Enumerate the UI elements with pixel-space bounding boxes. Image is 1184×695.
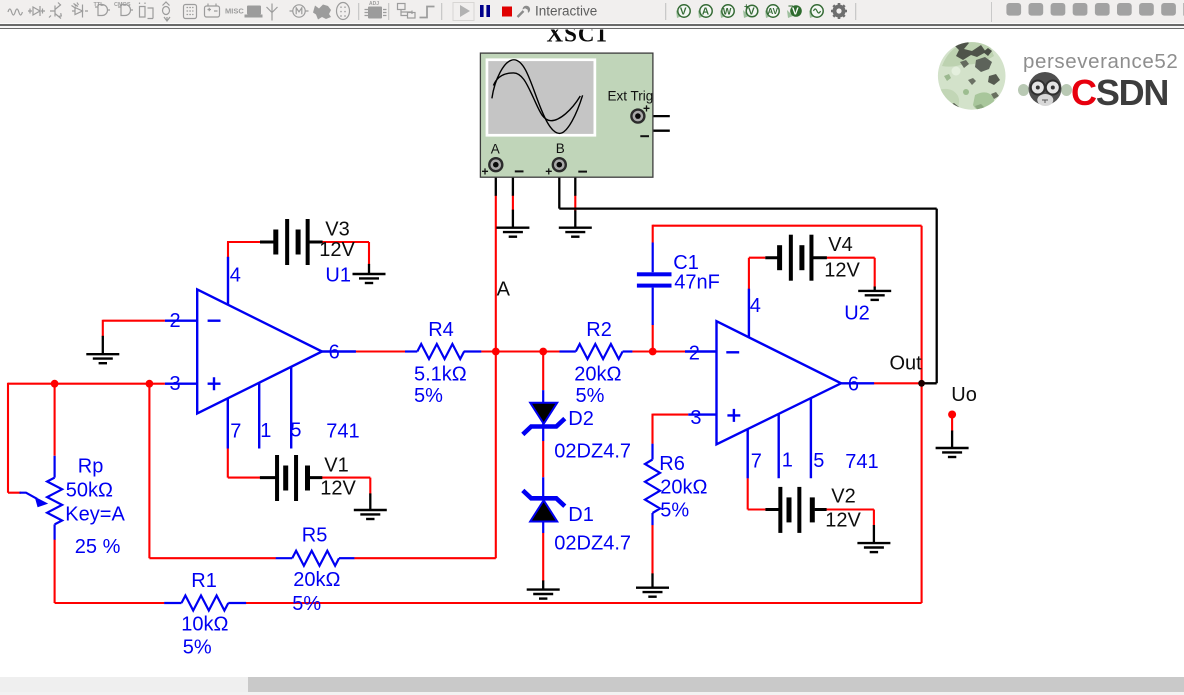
svg-text:Uo: Uo	[951, 384, 977, 406]
zener diode D2	[523, 390, 565, 441]
potentiometer Rp wiper arrowhead	[35, 497, 49, 508]
svg-text:4: 4	[230, 265, 241, 287]
instrument label XSC1	[547, 22, 609, 47]
svg-text:R1: R1	[191, 570, 217, 592]
svg-text:V1: V1	[324, 455, 348, 477]
play	[453, 3, 474, 21]
svg-text:6: 6	[329, 342, 340, 364]
svg-text:20kΩ: 20kΩ	[574, 363, 621, 385]
wire scope B+ feedback to Out	[559, 171, 936, 383]
wire right loop vertical	[921, 226, 923, 603]
wire bottom rail left of R1	[55, 602, 165, 604]
ground stems black	[103, 264, 952, 590]
svg-text:20kΩ: 20kΩ	[293, 569, 340, 591]
junction node dots	[51, 380, 59, 388]
svg-text:741: 741	[326, 421, 359, 443]
svg-text:D1: D1	[568, 504, 594, 526]
wire scope A- to ground	[502, 165, 513, 228]
green probe icons	[676, 1, 847, 19]
resistor R5	[276, 551, 355, 566]
svg-text:10kΩ: 10kΩ	[181, 614, 228, 636]
svg-text:A: A	[497, 279, 511, 301]
wire Uo stem	[951, 416, 953, 431]
battery V1	[260, 455, 322, 501]
wire top loop horizontal	[653, 225, 922, 227]
ground at scope A-	[496, 228, 529, 237]
wire ext trig minus	[638, 121, 670, 131]
ground at V3	[353, 274, 386, 283]
wire V3 to ground	[322, 242, 369, 265]
svg-text:5: 5	[813, 450, 824, 472]
svg-text:47nF: 47nF	[674, 272, 720, 294]
svg-text:12V: 12V	[320, 478, 356, 500]
svg-text:5%: 5%	[183, 637, 212, 659]
svg-text:4: 4	[750, 295, 761, 317]
svg-text:02DZ4.7: 02DZ4.7	[554, 533, 631, 555]
svg-text:20kΩ: 20kΩ	[660, 477, 707, 499]
svg-text:+: +	[482, 164, 489, 178]
wire U2 pin3 to R6	[653, 414, 689, 444]
wire U2 pin6 to Out	[874, 382, 922, 384]
svg-text:12V: 12V	[825, 510, 861, 532]
wire U2 pin4 to V4	[749, 258, 765, 289]
wire U1 pin7 to V1	[228, 448, 260, 477]
wrench	[518, 11, 524, 17]
scope terminal A	[489, 158, 502, 171]
wire diode branch top	[542, 352, 544, 391]
svg-text:B: B	[556, 141, 565, 156]
svg-text:V2: V2	[831, 486, 855, 508]
svg-text:U2: U2	[844, 303, 870, 325]
wire node A up to scope A+	[495, 195, 497, 352]
node Uo dot	[948, 411, 956, 419]
pause	[480, 5, 484, 17]
wire node to R5 left	[149, 384, 276, 559]
bottom scrollbar thumb	[248, 677, 1184, 692]
wire V1 to ground	[322, 478, 370, 495]
wire R6 to ground	[651, 525, 653, 574]
wire U2 pin7 to V2	[748, 478, 766, 509]
ground at Uo	[936, 448, 969, 457]
blue component labels	[65, 252, 878, 659]
svg-text:U1: U1	[325, 264, 351, 286]
ground at diodes	[527, 590, 560, 599]
svg-text:XSC1: XSC1	[547, 22, 609, 47]
svg-text:12V: 12V	[319, 239, 355, 261]
svg-text:R5: R5	[302, 525, 328, 547]
svg-text:02DZ4.7: 02DZ4.7	[554, 441, 631, 463]
U2 pin stubs	[685, 350, 717, 352]
svg-text:25 %: 25 %	[75, 536, 121, 558]
wire scope A- red segment	[512, 195, 514, 210]
svg-text:R2: R2	[586, 319, 612, 341]
resistor R6	[645, 444, 660, 525]
wire Rp bottom to bottom rail	[54, 539, 56, 603]
resistor R4	[405, 344, 481, 359]
wire U1 pin6 to R4	[356, 350, 406, 352]
wire: red net segments	[8, 195, 952, 603]
wire scope B- red segment	[574, 195, 576, 211]
svg-text:perseverance52: perseverance52	[1023, 50, 1178, 73]
op-amp U1	[165, 257, 356, 449]
wire V2 to ground	[826, 510, 874, 526]
svg-text:741: 741	[845, 451, 878, 473]
wire: black scope/feedback nets	[496, 116, 937, 383]
wire scope B- to ground	[565, 165, 575, 228]
ground at V4	[858, 291, 891, 300]
scope waveform trace 1	[492, 60, 583, 134]
bottom scrollbar track	[0, 677, 1184, 692]
wire bottom rail right of R1	[246, 602, 922, 604]
svg-text:5%: 5%	[292, 593, 321, 615]
wire left loop to wiper	[8, 383, 21, 493]
toolbar icons svg	[0, 0, 1184, 25]
ground at V2	[857, 543, 890, 552]
scope waveform trace 2	[493, 73, 580, 121]
battery V4	[765, 235, 827, 281]
svg-text:+: +	[643, 101, 650, 115]
wire R4 to R2	[481, 350, 560, 352]
wire node to Rp top	[54, 384, 56, 456]
ground at R6	[636, 588, 669, 597]
svg-text:V4: V4	[828, 234, 852, 256]
svg-text:5%: 5%	[414, 385, 443, 407]
black value labels	[319, 219, 977, 532]
watermark avatar	[936, 39, 1006, 112]
wire D1 to ground	[542, 533, 544, 581]
scope terminal Ext Trig	[631, 110, 644, 123]
potentiometer Rp	[20, 456, 63, 540]
resistor R2	[560, 344, 633, 359]
oscilloscope XSC1 body	[480, 53, 653, 179]
wire U1 pin3 horizontal	[8, 383, 165, 385]
svg-text:+: +	[545, 165, 552, 179]
wire V4 to ground	[827, 258, 875, 288]
svg-text:Key=A: Key=A	[65, 504, 125, 526]
gray docked squares	[1006, 3, 1184, 16]
node Out junction dot	[918, 380, 925, 387]
ground at U1 pin2	[86, 354, 119, 363]
op-amp U2	[685, 289, 874, 479]
csdn monkey mascot	[1018, 72, 1072, 106]
separators	[359, 2, 992, 22]
ground at scope B-	[559, 228, 592, 237]
U1 pin stubs	[165, 320, 197, 322]
svg-text:12V: 12V	[824, 260, 860, 282]
resistor R1	[164, 596, 246, 611]
wire scope A+ black stub	[495, 171, 497, 196]
svg-text:5: 5	[290, 420, 301, 442]
stop	[502, 7, 512, 17]
svg-text:7: 7	[230, 421, 241, 443]
svg-text:2: 2	[689, 343, 700, 365]
battery V3	[260, 219, 323, 265]
wire R5 right to node A	[354, 352, 496, 559]
svg-text:3: 3	[170, 373, 181, 395]
svg-text:5.1kΩ: 5.1kΩ	[414, 363, 467, 385]
svg-text:7: 7	[751, 451, 762, 473]
svg-text:5%: 5%	[660, 500, 689, 522]
wire R2 to U2 pin2	[632, 350, 685, 352]
svg-text:CSDN: CSDN	[1071, 72, 1168, 113]
battery V2	[765, 487, 826, 533]
ground at V1	[354, 510, 387, 519]
svg-text:R6: R6	[659, 453, 685, 475]
svg-text:Rp: Rp	[78, 456, 104, 478]
svg-text:R4: R4	[428, 319, 454, 341]
wire between D2 and D1	[542, 441, 544, 477]
svg-text:Out: Out	[890, 353, 923, 375]
svg-text:V3: V3	[325, 219, 349, 241]
wire C1 top red stub	[652, 225, 654, 243]
svg-text:2: 2	[170, 310, 181, 332]
svg-text:5%: 5%	[576, 385, 605, 407]
toolbar background	[0, 0, 1184, 23]
svg-text:3: 3	[690, 407, 701, 429]
svg-text:6: 6	[848, 373, 859, 395]
toolbar separator rule	[0, 23, 1184, 24]
svg-text:50kΩ: 50kΩ	[66, 480, 113, 502]
wire U1 pin2 to ground	[103, 320, 165, 337]
zener diode D1	[523, 477, 565, 533]
svg-text:1: 1	[782, 450, 793, 472]
svg-text:1: 1	[260, 420, 271, 442]
capacitor C1	[637, 243, 672, 326]
svg-text:D2: D2	[568, 408, 594, 430]
wire U1 pin4 to V3	[227, 242, 260, 258]
svg-text:A: A	[491, 142, 500, 157]
wire C1 bottom red stub	[652, 325, 654, 352]
wire ext trig plus	[646, 115, 670, 117]
scope terminal B	[553, 158, 566, 171]
